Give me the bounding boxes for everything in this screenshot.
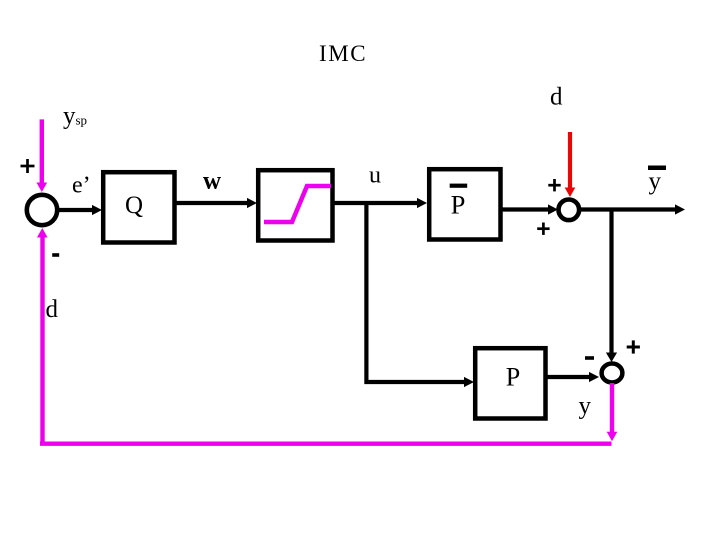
svg-text:u: u (369, 163, 381, 189)
svg-text:y: y (579, 393, 592, 420)
svg-text:d: d (46, 296, 59, 323)
svg-text:IMC: IMC (319, 41, 367, 66)
svg-text:e’: e’ (72, 173, 91, 199)
svg-text:w: w (203, 168, 221, 195)
svg-text:Q: Q (125, 192, 143, 219)
svg-text:P: P (451, 190, 466, 220)
svg-text:d: d (550, 84, 563, 111)
svg-text:P: P (506, 363, 520, 392)
svg-text:y: y (649, 168, 662, 195)
